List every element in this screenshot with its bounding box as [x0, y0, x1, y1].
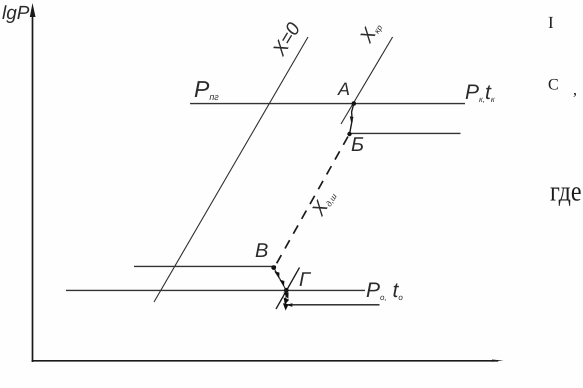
svg-text:Pо, tо: Pо, tо: [366, 279, 403, 302]
isostere line Xkr: [341, 37, 393, 124]
svg-text:Pк,tк: Pк,tк: [465, 81, 496, 104]
isobar line Pk (condenser pressure, top): [190, 103, 465, 105]
svg-text:А: А: [337, 79, 350, 99]
svg-text:Xкр: Xкр: [356, 17, 386, 47]
svg-text:В: В: [255, 240, 268, 262]
svg-text:Г: Г: [299, 269, 312, 291]
y-axis lgP: [30, 3, 36, 362]
x-axis: [32, 360, 504, 362]
point A: [352, 101, 357, 106]
svg-text:lgP: lgP: [2, 3, 30, 24]
point V (В): [271, 265, 276, 270]
isostere line X=0: [154, 37, 308, 302]
svg-text:где: где: [550, 177, 582, 208]
point G (Г): [284, 288, 289, 293]
line at B (Pk level for weak solution): [351, 132, 461, 134]
line at V (В level): [134, 265, 276, 267]
svg-text:Pпг: Pпг: [194, 76, 219, 102]
svg-text:I: I: [548, 13, 554, 32]
small arrow on A-B: [350, 116, 354, 123]
bottom line at G outlet: [287, 304, 380, 306]
short diagonal through G (Г): [276, 268, 300, 310]
svg-text:X=0: X=0: [269, 19, 305, 60]
point B (Б): [347, 132, 351, 136]
svg-text:Xд,ш: Xд,ш: [308, 186, 340, 220]
process segment A-B (absorber): [350, 104, 354, 134]
isobar line Po: [66, 289, 365, 291]
svg-text:,: ,: [573, 82, 577, 99]
dashed line Xd (Б to В): [276, 137, 348, 265]
svg-text:С: С: [548, 77, 559, 94]
svg-text:Б: Б: [351, 134, 364, 156]
throttling arrow chain V to G: [274, 268, 293, 311]
